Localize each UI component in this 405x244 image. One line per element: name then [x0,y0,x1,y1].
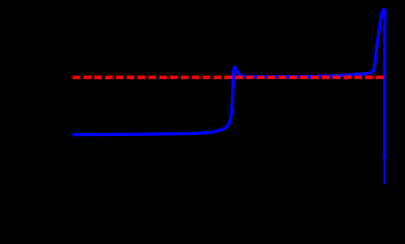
red dashed threshold line [73,76,386,80]
blue curve: tapered lower tail of the asymptote spike [383,156,385,184]
blue curve [73,10,386,159]
blue curve: small nub on the asymptote tail [383,155,387,159]
